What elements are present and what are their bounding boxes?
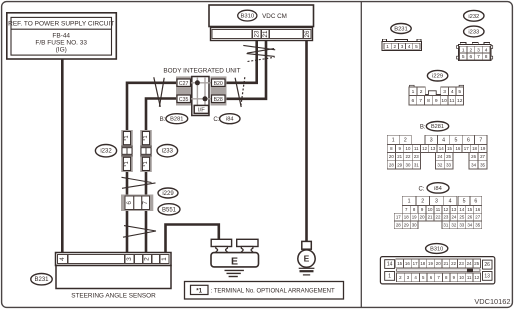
svg-text:10: 10 — [428, 207, 433, 212]
svg-text:25: 25 — [459, 215, 464, 220]
svg-text:35: 35 — [475, 222, 480, 227]
svg-text:26: 26 — [304, 30, 311, 37]
svg-text:B20: B20 — [214, 81, 223, 87]
svg-text:20: 20 — [389, 154, 394, 159]
svg-text:1: 1 — [412, 89, 415, 95]
svg-text:8: 8 — [485, 54, 488, 60]
svg-text:21: 21 — [443, 261, 448, 266]
svg-text:3: 3 — [430, 138, 433, 144]
svg-text:12: 12 — [443, 207, 448, 212]
svg-text:2: 2 — [420, 89, 423, 95]
svg-text:E: E — [304, 254, 310, 264]
svg-text:24: 24 — [467, 261, 472, 266]
svg-text:B310: B310 — [430, 246, 443, 252]
svg-text:32: 32 — [451, 222, 456, 227]
svg-text:B551: B551 — [162, 207, 177, 213]
svg-text:10: 10 — [406, 146, 411, 151]
svg-text:11: 11 — [449, 98, 454, 104]
svg-text:3: 3 — [477, 47, 480, 53]
svg-text:5: 5 — [462, 54, 465, 60]
svg-text:4: 4 — [451, 89, 454, 95]
svg-text:12: 12 — [457, 98, 463, 104]
svg-text:35: 35 — [480, 162, 485, 167]
svg-text:: TERMINAL No. OPTIONAL ARRANG: : TERMINAL No. OPTIONAL ARRANGEMENT — [211, 288, 335, 294]
svg-text:B310: B310 — [241, 14, 255, 20]
svg-text:E: E — [231, 255, 238, 267]
svg-text:8: 8 — [427, 98, 430, 104]
svg-text:B:: B: — [420, 124, 426, 130]
svg-text:7: 7 — [479, 138, 482, 144]
svg-text:6: 6 — [126, 201, 133, 205]
svg-text:22: 22 — [451, 261, 456, 266]
svg-text:34: 34 — [471, 162, 476, 167]
svg-text:B28: B28 — [214, 97, 223, 103]
svg-text:13: 13 — [451, 207, 456, 212]
svg-text:23: 23 — [459, 261, 464, 266]
svg-text:2: 2 — [469, 47, 472, 53]
svg-text:30: 30 — [406, 162, 411, 167]
svg-text:24: 24 — [437, 154, 442, 159]
svg-text:11: 11 — [467, 275, 472, 280]
svg-text:16: 16 — [455, 146, 460, 151]
svg-text:3: 3 — [443, 89, 446, 95]
svg-text:14: 14 — [459, 207, 464, 212]
svg-text:26: 26 — [484, 262, 490, 268]
svg-text:1: 1 — [462, 47, 465, 53]
svg-text:15: 15 — [467, 207, 472, 212]
svg-text:4: 4 — [449, 199, 452, 205]
svg-text:1: 1 — [408, 199, 411, 205]
svg-text:2: 2 — [404, 138, 407, 144]
svg-text:17: 17 — [464, 146, 469, 151]
svg-text:REF. TO POWER SUPPLY CIRCUIT: REF. TO POWER SUPPLY CIRCUIT — [8, 21, 114, 28]
svg-text:*1: *1 — [124, 135, 130, 140]
svg-text:28: 28 — [389, 162, 394, 167]
svg-text:16: 16 — [475, 207, 480, 212]
svg-text:23: 23 — [414, 154, 419, 159]
svg-text:19: 19 — [412, 215, 417, 220]
svg-text:*1: *1 — [143, 135, 149, 140]
svg-text:3: 3 — [435, 199, 438, 205]
svg-text:2: 2 — [421, 199, 424, 205]
svg-text:i233: i233 — [162, 149, 174, 155]
svg-text:5: 5 — [455, 138, 458, 144]
svg-text:20: 20 — [436, 261, 441, 266]
svg-text:2: 2 — [144, 257, 151, 261]
svg-text:9: 9 — [435, 98, 438, 104]
svg-text:i84: i84 — [434, 186, 443, 192]
svg-text:1: 1 — [392, 138, 395, 144]
svg-text:14: 14 — [439, 146, 444, 151]
svg-text:11: 11 — [436, 207, 441, 212]
svg-text:21: 21 — [428, 215, 433, 220]
svg-text:25: 25 — [474, 261, 479, 266]
svg-text:5: 5 — [463, 199, 466, 205]
svg-text:27: 27 — [480, 154, 485, 159]
svg-text:7: 7 — [477, 54, 480, 60]
svg-text:6: 6 — [411, 98, 414, 104]
svg-text:15: 15 — [447, 146, 452, 151]
svg-text:1: 1 — [161, 257, 168, 261]
svg-text:15: 15 — [397, 261, 402, 266]
svg-text:(IG): (IG) — [56, 47, 67, 54]
svg-text:28: 28 — [396, 222, 401, 227]
svg-text:18: 18 — [404, 215, 409, 220]
svg-text:21: 21 — [397, 154, 402, 159]
svg-text:12: 12 — [422, 146, 427, 151]
svg-text:26: 26 — [467, 215, 472, 220]
svg-text:B281: B281 — [170, 117, 183, 123]
svg-text:10: 10 — [441, 98, 447, 104]
svg-text:5: 5 — [458, 89, 461, 95]
svg-text:31: 31 — [414, 162, 419, 167]
svg-text:6: 6 — [467, 138, 470, 144]
svg-text:20: 20 — [420, 215, 425, 220]
svg-text:3: 3 — [126, 257, 133, 261]
svg-text:31: 31 — [443, 222, 448, 227]
svg-text:VDC CM: VDC CM — [262, 13, 287, 20]
svg-text:7: 7 — [419, 98, 422, 104]
svg-text:C35: C35 — [179, 97, 189, 103]
svg-text:4: 4 — [408, 44, 411, 49]
svg-text:4: 4 — [442, 138, 445, 144]
svg-text:30: 30 — [412, 222, 417, 227]
svg-text:C:: C: — [419, 186, 425, 192]
svg-text:B231: B231 — [34, 277, 49, 283]
svg-text:29: 29 — [397, 162, 402, 167]
svg-text:27: 27 — [475, 215, 480, 220]
svg-text:13: 13 — [484, 274, 490, 280]
svg-text:BODY INTEGRATED UNIT: BODY INTEGRATED UNIT — [163, 68, 240, 75]
svg-text:C27: C27 — [179, 81, 189, 87]
svg-text:i84: i84 — [226, 117, 234, 123]
svg-text:B231: B231 — [394, 26, 408, 32]
svg-text:23: 23 — [253, 30, 260, 37]
svg-text:STEERING ANGLE SENSOR: STEERING ANGLE SENSOR — [71, 292, 156, 299]
svg-text:i233: i233 — [468, 29, 479, 35]
svg-text:22: 22 — [406, 154, 411, 159]
svg-text:7: 7 — [142, 201, 149, 205]
svg-text:13: 13 — [430, 146, 435, 151]
svg-text:33: 33 — [446, 162, 451, 167]
svg-text:29: 29 — [404, 222, 409, 227]
svg-text:24: 24 — [451, 215, 456, 220]
svg-text:i229: i229 — [162, 191, 174, 197]
svg-text:33: 33 — [459, 222, 464, 227]
svg-text:26: 26 — [471, 154, 476, 159]
svg-text:23: 23 — [443, 215, 448, 220]
svg-text:3: 3 — [401, 44, 404, 49]
svg-text:i232: i232 — [468, 14, 479, 20]
svg-text:5: 5 — [415, 44, 418, 49]
svg-text:25: 25 — [446, 154, 451, 159]
svg-text:32: 32 — [437, 162, 442, 167]
svg-text:6: 6 — [469, 54, 472, 60]
svg-text:18: 18 — [420, 261, 425, 266]
svg-text:B:: B: — [160, 116, 166, 123]
svg-text:16: 16 — [405, 261, 410, 266]
svg-text:34: 34 — [467, 222, 472, 227]
svg-text:18: 18 — [472, 146, 477, 151]
svg-text:VDC10162: VDC10162 — [474, 297, 510, 306]
svg-text:22: 22 — [436, 215, 441, 220]
svg-text:B281: B281 — [431, 124, 444, 130]
svg-text:2: 2 — [393, 44, 396, 49]
svg-text:i232: i232 — [100, 149, 112, 155]
svg-text:6: 6 — [474, 199, 477, 205]
svg-text:19: 19 — [428, 261, 433, 266]
svg-text:11: 11 — [414, 146, 419, 151]
svg-text:i229: i229 — [432, 74, 443, 80]
svg-text:21: 21 — [262, 30, 269, 37]
svg-text:4: 4 — [485, 47, 488, 53]
svg-text:*1: *1 — [143, 161, 149, 166]
svg-text:FB-44: FB-44 — [52, 33, 70, 40]
svg-text:1: 1 — [388, 274, 391, 280]
svg-text:C:: C: — [213, 116, 219, 123]
svg-text:4: 4 — [59, 257, 66, 261]
svg-text:14: 14 — [387, 262, 393, 268]
svg-text:I/F: I/F — [198, 108, 205, 114]
svg-text:10: 10 — [459, 275, 464, 280]
svg-text:17: 17 — [413, 261, 418, 266]
svg-text:12: 12 — [474, 275, 479, 280]
svg-text:F/B FUSE NO. 33: F/B FUSE NO. 33 — [35, 40, 87, 47]
svg-text:19: 19 — [480, 146, 485, 151]
svg-text:1: 1 — [386, 44, 389, 49]
svg-text:17: 17 — [396, 215, 401, 220]
svg-text:*1: *1 — [196, 287, 202, 294]
svg-text:*1: *1 — [124, 161, 130, 166]
